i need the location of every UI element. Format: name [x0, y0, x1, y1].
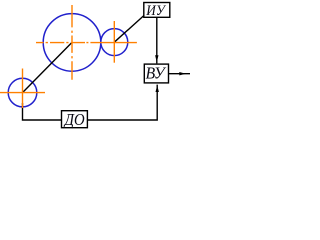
centerline vertical lower-left wheel (solid run)	[22, 69, 24, 109]
svg-text:ИУ: ИУ	[145, 3, 166, 19]
centerline vertical small wheel (solid run)	[113, 21, 115, 63]
gear wheel big circle	[43, 14, 101, 72]
block IU box	[144, 3, 170, 18]
svg-text:ВУ: ВУ	[146, 64, 167, 83]
arrowhead right on VU output	[179, 72, 186, 75]
arrowhead up into VU bottom	[156, 85, 159, 92]
block VU box	[144, 64, 168, 83]
wire: lower-left wheel to DO box	[23, 103, 62, 120]
lower-left wheel circle	[8, 78, 37, 107]
centerline vertical big wheel (dash-dot)	[71, 5, 73, 80]
wire: VU output to right	[169, 73, 191, 75]
gear wheel small circle	[101, 29, 128, 56]
block DO box	[62, 111, 88, 128]
wire: DO box to VU box riser	[87, 85, 157, 120]
centerline horizontal big+small wheels (dash-dot)	[36, 42, 137, 44]
centerline horizontal lower-left wheel (solid run)	[0, 92, 45, 94]
arrowhead down into VU top	[155, 55, 158, 62]
link rod D2 small wheel center to IU box	[114, 15, 144, 42]
wire: IU box down to VU box	[156, 17, 158, 63]
link rod D1 lower-left wheel center to big wheel center	[23, 42, 73, 92]
svg-text:ДО: ДО	[63, 110, 85, 129]
